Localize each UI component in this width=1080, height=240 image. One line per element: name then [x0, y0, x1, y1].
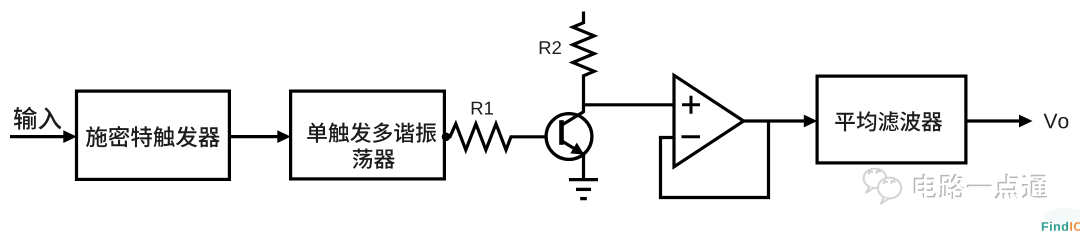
resistor R1: [446, 124, 546, 150]
op-amp minus input marker: [682, 135, 701, 138]
resistor R2: [573, 12, 594, 105]
decorative watermark: wechat icon: [864, 169, 902, 204]
label R1: [472, 102, 483, 115]
wire: Q1 collector node to op-amp non-inverting input: [582, 103, 674, 106]
wire: U4 output to Vo: [967, 119, 1021, 122]
block U2: one-shot multivibrator 单触发多谐振荡器: [291, 91, 445, 179]
wire: op-amp output to U4: [744, 119, 806, 122]
wire: feedback loop from output to inverting input: [661, 121, 769, 198]
op-amp U3 (comparator/buffer): [674, 75, 744, 167]
wire: input arrow into U1: [10, 135, 64, 138]
decorative watermark: FindIC logo: [1044, 208, 1080, 228]
node: output label Vo: [1044, 114, 1058, 128]
node: input label 输入: [14, 107, 37, 130]
block U4: average filter 平均滤波器: [817, 76, 966, 163]
decorative watermark: 电路一点通: [914, 174, 937, 199]
wire: U1 output to U2: [231, 135, 279, 138]
node: junction dot at U2 output: [442, 133, 451, 142]
block U1: Schmitt trigger 施密特触发器: [77, 91, 230, 179]
transistor Q1 (NPN): [546, 112, 592, 160]
label R2: [540, 41, 551, 54]
op-amp plus input marker: [682, 96, 700, 114]
wire: collector of Q1 up to R2 junction: [582, 105, 585, 113]
wire: emitter of Q1 down to ground: [582, 153, 585, 179]
ground: [569, 180, 598, 199]
